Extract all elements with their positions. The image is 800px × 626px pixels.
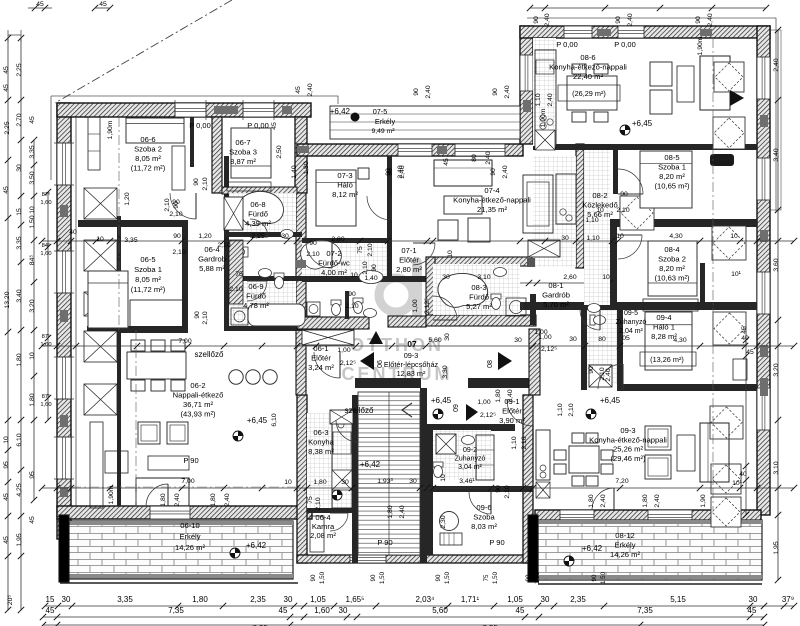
dining chairs 06-2 [131, 340, 145, 351]
svg-text:2,10: 2,10 [315, 497, 322, 510]
svg-text:Szoba 3: Szoba 3 [229, 148, 257, 157]
armchair 08-6 a [650, 62, 672, 86]
svg-text:1,80: 1,80 [642, 494, 649, 507]
axis dash-dot v2 [712, 38, 714, 510]
window left 3 [57, 357, 71, 399]
window left 1 [57, 143, 71, 185]
tiles 06-8 [229, 193, 296, 232]
partition corridor bottom 1 [355, 378, 421, 388]
svg-text:1,00: 1,00 [477, 399, 490, 406]
svg-text:2,25: 2,25 [4, 121, 11, 134]
svg-text:(43,93 m²): (43,93 m²) [180, 410, 215, 419]
tv 06-2 [105, 451, 128, 473]
svg-text:09-4: 09-4 [656, 313, 671, 322]
svg-text:5,27 m²: 5,27 m² [466, 302, 492, 311]
partition wc divider [345, 291, 349, 319]
svg-text:szellőző: szellőző [345, 406, 374, 415]
svg-text:Szoba: Szoba [473, 513, 495, 522]
svg-text:06-9: 06-9 [248, 282, 263, 291]
svg-text:Zuhanyzó: Zuhanyzó [455, 456, 486, 463]
armchair diamond 0 [714, 62, 744, 92]
svg-text:1,60: 1,60 [40, 200, 51, 206]
sill ticks left wall [54, 142, 74, 144]
entrance arrow apt07 [369, 331, 383, 344]
window left 2 [57, 251, 71, 293]
kitchen 09-3 counter [536, 430, 550, 480]
svg-text:45: 45 [443, 158, 450, 166]
svg-text:Konyha-étkező-nappali: Konyha-étkező-nappali [453, 196, 531, 205]
svg-text:(26,29 m²): (26,29 m²) [572, 89, 606, 98]
svg-text:1,90m: 1,90m [108, 485, 115, 504]
svg-text:2,10: 2,10 [521, 436, 528, 449]
svg-text:30: 30 [341, 479, 349, 486]
svg-text:Fürdő: Fürdő [469, 293, 489, 302]
dining chairs 08-6 [572, 64, 586, 74]
svg-text:14,26 m²: 14,26 m² [610, 550, 640, 559]
partition central corridor top [297, 317, 369, 329]
door 06-5 [306, 242, 332, 268]
svg-text:2,10: 2,10 [229, 286, 242, 293]
svg-text:Gardrob: Gardrob [198, 255, 226, 264]
svg-text:+6,42: +6,42 [360, 460, 381, 469]
shelf 06-2 [90, 422, 103, 508]
wall pier 7 [297, 146, 309, 153]
door 09-6 [469, 492, 491, 514]
svg-text:08-3: 08-3 [471, 283, 486, 292]
sill ticks top-left [174, 100, 176, 120]
door 09-1 [507, 400, 533, 426]
svg-text:75: 75 [357, 246, 364, 254]
svg-text:Előtér: Előtér [502, 407, 522, 416]
bed 08-5 [640, 151, 692, 208]
svg-text:2,50: 2,50 [276, 145, 283, 158]
svg-text:10: 10 [3, 436, 10, 444]
sink 06-9 [259, 269, 272, 278]
svg-text:8,05 m²: 8,05 m² [135, 275, 161, 284]
kitchen 06-3 counter [332, 420, 352, 508]
svg-text:1,60: 1,60 [40, 251, 51, 257]
svg-text:2,40: 2,40 [397, 165, 404, 178]
door balcony 06-10 [146, 484, 168, 506]
interior dim chain y241 [42, 240, 794, 242]
exterior wall mid-block-bottom [297, 555, 533, 563]
wall pier 8 [760, 115, 768, 127]
svg-text:84⁵: 84⁵ [42, 242, 51, 249]
partition szoba2-szoba3 vestibule [190, 117, 194, 167]
svg-text:2,40: 2,40 [399, 505, 406, 518]
level +6,42 07-5 [351, 113, 360, 122]
svg-text:+6,45: +6,45 [600, 396, 621, 405]
svg-text:10: 10 [616, 233, 624, 240]
svg-text:06-2: 06-2 [190, 381, 205, 390]
svg-text:90: 90 [413, 88, 420, 96]
left dim col1 [7, 38, 9, 610]
svg-text:1,20: 1,20 [198, 233, 211, 240]
svg-text:08-6: 08-6 [580, 53, 595, 62]
svg-text:08-4: 08-4 [664, 245, 679, 254]
coffee table 08-6 [677, 66, 694, 102]
roof outline top-right [527, 18, 776, 212]
svg-text:45: 45 [516, 606, 525, 615]
left dim col3 [33, 140, 35, 500]
wc 09-5 [590, 315, 606, 325]
svg-text:10: 10 [29, 206, 36, 214]
svg-text:30: 30 [749, 595, 758, 604]
ceiling lights 06-2 [229, 370, 243, 384]
coffee 09-3 [677, 435, 695, 471]
svg-text:07-1: 07-1 [401, 246, 416, 255]
room 09-4 b [640, 352, 696, 366]
svg-text:(10,63 m²): (10,63 m²) [654, 274, 689, 283]
svg-text:3,50: 3,50 [29, 171, 36, 184]
door 07-1 [413, 243, 435, 265]
armchair diamond 3 [713, 312, 746, 345]
sink 09-5 [588, 304, 601, 313]
svg-text:1,10: 1,10 [557, 403, 564, 416]
partition 08-5 bottom [614, 219, 757, 227]
window center-top 1 [398, 144, 432, 156]
svg-text:90: 90 [193, 178, 200, 186]
level +6,45 mid [433, 409, 443, 419]
top dim tr [530, 7, 766, 9]
shaft szellozo mid [302, 330, 354, 345]
exterior wall top-left [57, 103, 311, 117]
svg-text:09-3: 09-3 [404, 351, 419, 360]
wall pier 2 [60, 310, 68, 322]
svg-text:2,10: 2,10 [202, 177, 209, 190]
armchair diamond 1 [713, 117, 745, 149]
svg-text:2,40: 2,40 [605, 368, 612, 381]
svg-text:30: 30 [281, 233, 289, 240]
svg-text:1,80: 1,80 [313, 479, 326, 486]
right dim col2 [745, 340, 747, 515]
svg-text:1,80: 1,80 [210, 493, 217, 506]
svg-text:3,60: 3,60 [773, 258, 780, 271]
svg-text:1,80: 1,80 [29, 393, 36, 406]
svg-text:3,35: 3,35 [124, 237, 137, 244]
svg-text:4,30: 4,30 [669, 233, 682, 240]
svg-text:87⁵: 87⁵ [42, 333, 51, 340]
svg-text:08-2: 08-2 [592, 191, 607, 200]
svg-text:1,80: 1,80 [16, 353, 23, 366]
svg-text:+6,42: +6,42 [330, 107, 351, 116]
svg-text:Nappali-étkező: Nappali-étkező [173, 391, 224, 400]
svg-text:+6,42: +6,42 [246, 541, 267, 550]
washer 07-2 [307, 302, 320, 316]
svg-text:2,35: 2,35 [250, 595, 266, 604]
nightstand 07-3 [358, 168, 369, 179]
svg-text:2,40: 2,40 [485, 151, 492, 164]
svg-text:7,00: 7,00 [181, 478, 194, 485]
svg-text:4,25: 4,25 [16, 483, 23, 496]
svg-text:2,03⁴: 2,03⁴ [415, 595, 435, 604]
window center-top 2 [455, 144, 505, 156]
partition 06-3 kitchen right [352, 395, 358, 563]
closet unit 3 [84, 331, 117, 362]
exterior wall left [57, 103, 71, 539]
window midblock bottom [350, 555, 386, 563]
svg-text:90: 90 [695, 16, 702, 24]
wall pier 11 [760, 378, 768, 396]
wc 06-9 [274, 273, 284, 289]
closet unit 2 [84, 240, 117, 271]
sink 06-8 [281, 230, 294, 239]
svg-text:1,90m: 1,90m [540, 108, 547, 127]
svg-text:45: 45 [295, 86, 302, 94]
wc 09-2 [433, 462, 443, 478]
table 09-4 [733, 359, 747, 380]
dim 1,40 oval [359, 271, 383, 284]
svg-text:2,10: 2,10 [504, 485, 511, 498]
partition baths h3 [224, 326, 302, 331]
dining 07-4 [523, 175, 553, 233]
svg-text:7,00: 7,00 [178, 338, 191, 345]
svg-text:Konyha-étkező-nappali: Konyha-étkező-nappali [589, 435, 667, 444]
svg-text:30: 30 [444, 333, 451, 341]
partition 08 block h1 [533, 144, 757, 150]
interior hatched wall szoba3-left [212, 117, 222, 193]
svg-text:1,60: 1,60 [40, 402, 51, 408]
svg-text:45: 45 [3, 536, 10, 544]
svg-text:45: 45 [741, 326, 748, 334]
svg-text:1,90m: 1,90m [107, 120, 114, 139]
svg-text:90: 90 [533, 16, 540, 24]
armchair diamond 6 [620, 196, 654, 230]
svg-text:Háló: Háló [337, 181, 353, 190]
svg-text:2,30: 2,30 [440, 515, 447, 528]
svg-text:45: 45 [99, 1, 107, 8]
svg-text:30: 30 [339, 606, 348, 615]
svg-text:10¹: 10¹ [732, 480, 743, 487]
svg-text:1,10: 1,10 [511, 436, 518, 449]
partition corridor bottom 2 [468, 378, 533, 388]
svg-text:Fürdő-wc: Fürdő-wc [318, 259, 350, 268]
wall pier 9 [760, 230, 768, 242]
svg-text:6,10: 6,10 [16, 433, 23, 446]
interior dim chain y346 [42, 345, 794, 347]
partition bath 08-3 top [426, 257, 576, 266]
window right 4 [757, 388, 770, 430]
tiles 08-6 kitchen [533, 38, 556, 146]
window top-left 2 [243, 103, 274, 117]
svg-text:Erkély: Erkély [375, 117, 396, 126]
svg-text:6,10: 6,10 [271, 413, 278, 426]
svg-text:14,26 m²: 14,26 m² [175, 543, 205, 552]
bottom dim row1 line [45, 605, 794, 607]
wall pier 14 [523, 100, 531, 112]
svg-text:3,46¹: 3,46¹ [459, 478, 475, 485]
svg-text:45: 45 [36, 1, 44, 8]
partition 07/baths h [302, 276, 433, 282]
svg-text:05: 05 [622, 335, 630, 342]
partition 08-5 left [613, 150, 618, 194]
exterior wall center-top [297, 144, 523, 156]
wall pier 1 [60, 205, 68, 217]
armchair 09-3 a [645, 426, 671, 450]
svg-text:4,78 m²: 4,78 m² [243, 301, 269, 310]
svg-text:8,12 m²: 8,12 m² [332, 190, 358, 199]
tub 06-8 [238, 191, 283, 225]
svg-text:1,50: 1,50 [600, 571, 607, 584]
kamra shelf [310, 516, 324, 552]
svg-text:07-5: 07-5 [373, 107, 388, 116]
kitchen 07-4 counter [556, 174, 576, 224]
svg-text:3,20: 3,20 [773, 363, 780, 376]
svg-text:3,20: 3,20 [29, 299, 36, 312]
svg-text:90: 90 [309, 240, 317, 247]
armchair 06-2 a [138, 422, 160, 444]
tiles 06-9 [229, 281, 296, 326]
svg-text:(11,72 m²): (11,72 m²) [131, 285, 166, 294]
svg-text:3,10: 3,10 [773, 461, 780, 474]
svg-text:95: 95 [3, 461, 10, 469]
door 08-5 [618, 169, 643, 194]
svg-text:1,40: 1,40 [364, 275, 377, 282]
svg-text:2,40: 2,40 [174, 493, 181, 506]
svg-text:2,25: 2,25 [16, 63, 23, 76]
tiles 07-2 [302, 243, 387, 276]
lamp 08-5 [710, 154, 734, 166]
svg-text:+6,45: +6,45 [632, 119, 653, 128]
sofa 08-6 [700, 56, 730, 110]
svg-text:Gardrób: Gardrób [542, 291, 570, 300]
tiles 07-4 kitchen [533, 156, 576, 267]
svg-text:2,40: 2,40 [425, 85, 432, 98]
washer 06-9 [231, 308, 248, 325]
coffee 06-2 [148, 456, 189, 470]
svg-text:2,40: 2,40 [544, 13, 551, 26]
svg-text:1,60: 1,60 [40, 342, 51, 348]
balcony 06-10 edge [59, 515, 69, 582]
exterior wall bottom-right [535, 510, 761, 522]
closet unit 4 [84, 384, 117, 415]
sofa 06-2 [136, 478, 189, 506]
svg-text:1,90m: 1,90m [697, 36, 704, 55]
window bottom-right 2 [648, 510, 692, 522]
svg-text:1,50: 1,50 [29, 215, 36, 228]
svg-text:3,40: 3,40 [773, 148, 780, 161]
svg-text:06-1: 06-1 [313, 344, 328, 353]
partition closets-right [117, 216, 121, 506]
svg-text:2,70: 2,70 [16, 113, 23, 126]
top-left corner ticks [32, 5, 38, 11]
svg-text:20⁵: 20⁵ [7, 595, 14, 606]
svg-text:90: 90 [348, 291, 356, 298]
dining 09-3 [569, 446, 599, 473]
svg-text:2,10: 2,10 [202, 311, 209, 324]
svg-text:90: 90 [173, 233, 181, 240]
tiles 08-3 [433, 264, 520, 315]
kitchen 08-6 stove [540, 115, 546, 121]
partition 09-2 top [427, 424, 515, 431]
entrance arrow apt09 [466, 404, 478, 421]
svg-text:90: 90 [194, 311, 201, 319]
door 09-4 [598, 364, 623, 389]
partition 06-5 right wall [182, 220, 188, 330]
svg-text:2,10: 2,10 [362, 261, 369, 274]
closet unit 1 [84, 188, 117, 219]
svg-text:2,40: 2,40 [504, 85, 511, 98]
svg-text:1,10: 1,10 [535, 93, 542, 106]
window right 2 [757, 158, 770, 200]
wall pier 13 [700, 29, 712, 36]
door 06-1 [314, 352, 340, 378]
svg-text:87⁵: 87⁵ [42, 393, 51, 400]
door balcony 08-12 [592, 488, 614, 510]
svg-text:Szoba 2: Szoba 2 [134, 145, 162, 154]
svg-text:06-8: 06-8 [250, 200, 265, 209]
partition gardrob right [224, 156, 229, 331]
svg-text:3,10: 3,10 [477, 274, 490, 281]
svg-text:1,00: 1,00 [337, 347, 350, 354]
window top-right 2 [618, 26, 644, 38]
sink 08-3 [494, 268, 507, 277]
armchair diamond 5 [711, 464, 741, 494]
svg-text:90: 90 [495, 485, 502, 493]
arrow 08 entry [730, 90, 744, 106]
wall pier 5 [214, 106, 238, 114]
svg-text:2,40: 2,40 [307, 83, 314, 96]
svg-text:30: 30 [561, 235, 569, 242]
svg-text:10: 10 [447, 250, 454, 258]
chair 07-4 b [468, 218, 490, 242]
svg-text:10: 10 [596, 207, 604, 214]
exterior wall right [757, 26, 770, 515]
bed 06-7 [231, 128, 271, 178]
svg-text:22,40 m²: 22,40 m² [573, 72, 603, 81]
svg-text:8,20 m²: 8,20 m² [659, 264, 685, 273]
svg-text:75: 75 [483, 574, 490, 581]
kitchen 08-6 counter [535, 50, 556, 146]
svg-text:45: 45 [29, 516, 36, 524]
window bottom-right 1 [560, 510, 594, 522]
svg-text:4,30: 4,30 [673, 337, 686, 344]
svg-text:1,80: 1,80 [387, 505, 394, 518]
wall pier 6 [282, 106, 292, 114]
svg-text:45: 45 [46, 606, 55, 615]
pier 07-2 [296, 260, 306, 268]
partition 09-1 right [529, 329, 540, 395]
partition 06-5 bottom [87, 326, 188, 333]
svg-text:75: 75 [307, 496, 314, 504]
svg-text:2,12⁵: 2,12⁵ [424, 298, 431, 314]
door 07-3 [367, 196, 391, 220]
svg-text:90: 90 [620, 191, 628, 198]
svg-text:30: 30 [442, 274, 450, 281]
svg-text:30: 30 [514, 337, 522, 344]
chair 07-4 a [438, 220, 458, 240]
svg-text:P 0,00: P 0,00 [247, 121, 269, 130]
svg-text:40: 40 [69, 229, 77, 236]
svg-text:10: 10 [730, 233, 738, 240]
washer 08-3 [506, 298, 526, 316]
balcony 08-12 edge [528, 515, 538, 582]
svg-text:2,60: 2,60 [563, 274, 576, 281]
svg-text:10: 10 [96, 236, 104, 243]
svg-text:2,40: 2,40 [224, 493, 231, 506]
svg-text:10: 10 [602, 274, 610, 281]
door 08-3 [433, 296, 457, 320]
svg-text:Fürdő: Fürdő [248, 210, 268, 219]
sofa 07-4 [434, 160, 492, 186]
svg-text:08: 08 [487, 360, 494, 368]
svg-text:8,87 m²: 8,87 m² [230, 157, 256, 166]
partition 07 haló right [387, 156, 392, 280]
level +6,45 08-6 [620, 125, 630, 135]
svg-text:2,12⁵: 2,12⁵ [541, 346, 557, 353]
svg-text:07-3: 07-3 [337, 171, 352, 180]
wc 08-3 [491, 294, 501, 310]
